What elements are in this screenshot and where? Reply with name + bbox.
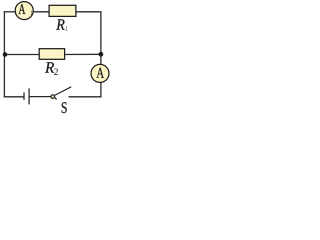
- wire node-to-ammeter A: [100, 54, 102, 64]
- wire middle branch left segment: [4, 54, 39, 56]
- resistor R1: [49, 5, 76, 16]
- switch S label: [62, 102, 67, 113]
- resistor R1 label subscript 1: [66, 26, 68, 31]
- wire top A1-to-R1: [34, 11, 50, 13]
- wire top-left horizontal: [4, 11, 15, 13]
- node left junction: [3, 52, 8, 57]
- resistor R2 label subscript 2: [54, 68, 58, 75]
- resistor R2 label: [45, 62, 54, 72]
- ammeter A1 circle: [15, 2, 33, 20]
- wire ammeter A to bottom corner: [100, 83, 102, 97]
- battery long plate: [28, 88, 30, 104]
- wire bottom left segment: [4, 96, 23, 98]
- ammeter A label: [97, 68, 105, 78]
- battery short plate: [23, 92, 25, 99]
- wire left vertical: [3, 12, 5, 97]
- wire middle branch right segment: [64, 53, 101, 55]
- switch lever: [54, 87, 71, 96]
- node right junction: [99, 52, 104, 57]
- ammeter A1 subscript 1: [31, 11, 33, 16]
- wire bottom battery-to-switch segment: [30, 96, 51, 98]
- wire top R1-to-corner with right vertical down to node: [76, 12, 101, 55]
- switch fixed contact tick: [55, 97, 57, 99]
- wire bottom right segment: [69, 96, 101, 98]
- ammeter A circle: [91, 64, 109, 82]
- resistor R2: [39, 49, 64, 60]
- switch pivot circle: [51, 95, 55, 99]
- ammeter A1 label: [19, 4, 26, 14]
- resistor R1 label: [56, 19, 64, 29]
